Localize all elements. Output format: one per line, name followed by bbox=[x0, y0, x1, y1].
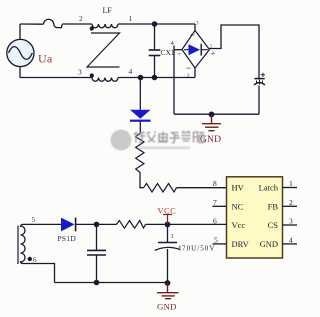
wire source top bbox=[19, 24, 21, 39]
wire PS1D to R3 bbox=[76, 223, 117, 225]
svg-text:Ua: Ua bbox=[38, 52, 53, 66]
svg-text:LF: LF bbox=[103, 6, 113, 15]
wire T1 top to diode bbox=[21, 224, 62, 227]
U1 pin 4 stub bbox=[283, 243, 298, 245]
svg-text:4: 4 bbox=[289, 236, 293, 245]
wire T1 bottom to rail bbox=[21, 261, 55, 283]
U1 pin 5 stub bbox=[213, 243, 227, 245]
svg-text:FB: FB bbox=[268, 201, 279, 211]
capacitor C3 bbox=[87, 224, 106, 282]
svg-text:GND: GND bbox=[260, 239, 278, 249]
svg-text:VCC: VCC bbox=[158, 207, 177, 216]
inductor LF top winding bbox=[92, 24, 118, 28]
svg-text:CX1: CX1 bbox=[161, 48, 175, 57]
capacitor C4 polarized bbox=[155, 224, 180, 282]
label C1 + bbox=[261, 73, 265, 77]
junction dot CX1 top bbox=[152, 21, 158, 27]
svg-text:470U/50V: 470U/50V bbox=[178, 245, 216, 253]
junction dot C3 bottom bbox=[94, 280, 100, 286]
diode PS1D bbox=[61, 218, 76, 232]
svg-text:8: 8 bbox=[213, 179, 217, 188]
svg-text:3: 3 bbox=[289, 216, 293, 225]
LF polarity dot top bbox=[90, 26, 94, 30]
svg-text:6: 6 bbox=[33, 256, 37, 264]
wire cap C1 to ground rail bbox=[258, 86, 260, 115]
resistor R3 bbox=[117, 221, 146, 229]
wire fuse to LF bbox=[62, 23, 92, 25]
ground GND bottom bbox=[157, 283, 179, 299]
svg-text:1: 1 bbox=[289, 179, 293, 188]
wire bottom rail bbox=[55, 282, 168, 284]
svg-text:Vcc: Vcc bbox=[232, 220, 246, 230]
svg-text:7: 7 bbox=[213, 198, 217, 207]
svg-text:NC: NC bbox=[232, 201, 244, 211]
svg-text:4: 4 bbox=[129, 67, 133, 76]
ground GND top bbox=[202, 114, 221, 130]
svg-text:CS: CS bbox=[268, 220, 279, 230]
svg-text:1: 1 bbox=[129, 14, 133, 23]
watermark logo circle bbox=[111, 130, 132, 151]
svg-text:PS1D: PS1D bbox=[58, 234, 77, 243]
svg-text:GND: GND bbox=[157, 301, 177, 311]
svg-text:~: ~ bbox=[186, 63, 191, 73]
bridge rectifier D1 body bbox=[182, 31, 210, 69]
transformer T1 secondary winding bbox=[21, 226, 26, 262]
watermark underline bbox=[139, 146, 190, 149]
wire ground rail top bbox=[174, 113, 259, 115]
svg-text:3: 3 bbox=[78, 68, 82, 77]
wire bridge top stub bbox=[194, 24, 196, 31]
svg-text:HV: HV bbox=[232, 183, 245, 193]
svg-text:DRV: DRV bbox=[232, 239, 250, 249]
inductor LF bottom winding bbox=[92, 78, 118, 82]
svg-text:5: 5 bbox=[32, 216, 36, 224]
T1 polarity dot bbox=[28, 257, 32, 261]
LF polarity dot bottom bbox=[90, 73, 94, 77]
junction dot node diode branch bbox=[138, 75, 144, 81]
wire bridge minus to ground rail bbox=[174, 46, 182, 115]
diode D2 bbox=[130, 78, 151, 134]
wire R1 to R2 corner bbox=[140, 172, 144, 187]
U1 pin 1 stub bbox=[283, 187, 298, 189]
junction dot VCC bbox=[165, 222, 171, 228]
resistor R1 vertical bbox=[136, 134, 144, 173]
U1 pin 3 stub bbox=[283, 224, 298, 226]
junction dot CX1 bottom bbox=[152, 75, 158, 81]
IC U1 body bbox=[227, 177, 283, 258]
wire bottom rail left bbox=[20, 77, 92, 79]
svg-text:+: + bbox=[211, 49, 216, 58]
wire top rail LF to bridge bbox=[118, 23, 195, 25]
svg-text:5: 5 bbox=[214, 236, 218, 245]
svg-text:~: ~ bbox=[190, 30, 195, 40]
resistor R2 horizontal bbox=[144, 184, 177, 193]
wire bridge bottom stub bbox=[194, 68, 196, 78]
wire bridge plus to cap bbox=[210, 25, 260, 78]
svg-text:Latch: Latch bbox=[259, 183, 279, 193]
watermark text glyphs bbox=[134, 131, 205, 143]
fuse F1 bbox=[43, 19, 62, 27]
wire bottom rail LF to bridge bbox=[118, 77, 195, 79]
svg-text:2: 2 bbox=[289, 198, 293, 207]
LF coupling Z bbox=[87, 33, 120, 67]
wire top rail left bbox=[20, 23, 43, 25]
capacitor CX1 bbox=[149, 24, 161, 78]
junction dot C3 top bbox=[94, 222, 100, 228]
wire R3 to Vcc pin bbox=[146, 223, 227, 225]
junction dot ground bottom bbox=[165, 280, 171, 286]
AC source Ua bbox=[7, 39, 34, 66]
capacitor C1 polarized top-right bbox=[254, 79, 265, 85]
U1 pin 2 stub bbox=[283, 205, 298, 207]
wire source bottom bbox=[19, 67, 21, 78]
wire R2 to pin HV bbox=[177, 187, 227, 189]
svg-text:2: 2 bbox=[79, 14, 83, 23]
svg-text:1: 1 bbox=[171, 233, 174, 240]
bridge diode arrow bbox=[184, 44, 208, 56]
transformer T1 secondary core bbox=[17, 226, 19, 265]
junction dot ground rail bbox=[209, 112, 215, 118]
U1 pin 7 stub bbox=[213, 205, 227, 207]
power port VCC bbox=[163, 215, 172, 225]
